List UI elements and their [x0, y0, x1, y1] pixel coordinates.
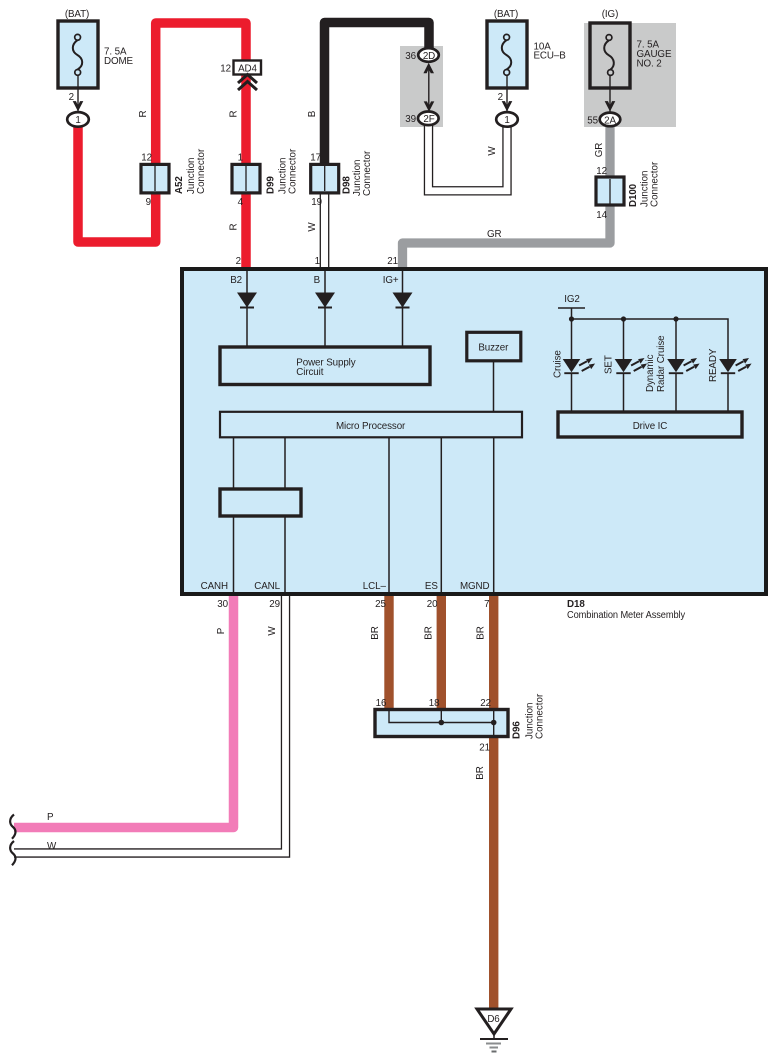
wire brown BR from ES pin 20 to D96	[437, 596, 446, 710]
svg-text:21: 21	[387, 256, 398, 267]
svg-text:LCL–: LCL–	[363, 581, 387, 592]
junction connector D99	[232, 164, 260, 193]
svg-text:D18: D18	[567, 599, 585, 610]
label D99 junction connector	[266, 148, 299, 194]
fuse 7.5A GAUGE NO.2	[590, 23, 630, 88]
micro processor box	[220, 412, 522, 438]
svg-text:NO. 2: NO. 2	[637, 59, 662, 70]
LED dynamic radar cruise	[667, 319, 699, 412]
svg-text:MGND: MGND	[460, 581, 490, 592]
svg-text:30: 30	[217, 599, 228, 610]
svg-text:12: 12	[220, 64, 231, 75]
wire brown BR from D96 pin 21 to ground D6	[489, 736, 498, 1009]
svg-text:D99: D99	[266, 176, 277, 194]
wire MGND microprocessor to edge	[493, 437, 495, 592]
svg-text:Buzzer: Buzzer	[478, 342, 509, 353]
svg-text:CANL: CANL	[254, 581, 280, 592]
svg-text:BR: BR	[475, 766, 486, 779]
svg-text:2: 2	[69, 92, 74, 103]
diode B2	[237, 292, 257, 347]
svg-text:12: 12	[141, 153, 152, 164]
gray shade behind IG fuse	[584, 23, 676, 127]
svg-text:2: 2	[498, 92, 503, 103]
squiggle P wire end	[10, 815, 15, 839]
svg-text:17: 17	[310, 153, 321, 164]
svg-text:29: 29	[269, 599, 280, 610]
junction connector D98	[311, 164, 339, 193]
connector circle 1 dome	[67, 112, 89, 127]
label D100 junction connector	[628, 161, 661, 207]
svg-text:BR: BR	[370, 626, 381, 639]
svg-text:Connector: Connector	[650, 161, 661, 207]
wire red DOME fuse to A52 to AD4 to D99 to meter B2	[78, 23, 246, 267]
svg-text:CANH: CANH	[201, 581, 228, 592]
junction connector A52	[141, 164, 169, 193]
svg-text:D98: D98	[342, 176, 353, 194]
svg-text:20: 20	[427, 599, 438, 610]
svg-text:DOME: DOME	[104, 56, 134, 67]
diode IG+	[393, 292, 413, 347]
svg-text:36: 36	[405, 51, 416, 62]
wire white W from 2F to ECU-B fuse pin 1	[429, 124, 508, 191]
fuse 7.5A DOME	[58, 21, 98, 88]
label D96 junction connector	[512, 693, 546, 739]
IG2 tick line	[558, 307, 585, 309]
svg-text:ECU–B: ECU–B	[534, 51, 567, 62]
gray shade behind 2D/2F connector	[400, 46, 443, 127]
svg-text:Connector: Connector	[535, 693, 546, 739]
svg-text:Drive IC: Drive IC	[633, 421, 668, 432]
svg-text:(BAT): (BAT)	[494, 9, 518, 20]
pin separator IG+	[402, 271, 404, 292]
svg-text:1: 1	[75, 115, 80, 126]
buzzer box	[467, 332, 521, 361]
svg-text:2A: 2A	[604, 116, 616, 127]
svg-text:D96: D96	[512, 721, 523, 739]
svg-text:Combination Meter Assembly: Combination Meter Assembly	[567, 610, 685, 621]
svg-text:Micro Processor: Micro Processor	[336, 421, 406, 432]
fuse 10A ECU-B	[487, 21, 527, 88]
junction dot 3	[673, 316, 678, 321]
LED ready	[719, 358, 751, 412]
wire CANL microprocessor to edge	[284, 437, 286, 592]
LED set	[615, 319, 647, 412]
svg-text:GR: GR	[487, 229, 502, 240]
svg-text:14: 14	[596, 210, 607, 221]
svg-text:ES: ES	[425, 581, 438, 592]
small unlabeled box	[220, 489, 301, 516]
svg-text:2D: 2D	[423, 51, 435, 62]
svg-text:Connector: Connector	[288, 148, 299, 194]
svg-text:Cruise: Cruise	[553, 350, 564, 378]
svg-text:A52: A52	[174, 176, 185, 194]
svg-text:2: 2	[236, 256, 241, 267]
label D18 combination meter assembly	[567, 599, 685, 621]
wire white W from CANL pin 29	[14, 596, 286, 853]
svg-text:B2: B2	[230, 275, 242, 286]
label A52 junction connector	[174, 148, 207, 194]
wire pink P from CANH pin 30	[14, 596, 234, 828]
svg-text:BR: BR	[423, 626, 434, 639]
svg-text:SET: SET	[604, 355, 615, 374]
wire LCL- microprocessor to edge	[388, 437, 390, 592]
svg-text:(IG): (IG)	[602, 9, 618, 20]
svg-text:55: 55	[587, 116, 598, 127]
svg-text:21: 21	[479, 743, 490, 754]
svg-text:READY: READY	[708, 348, 719, 382]
svg-text:1: 1	[238, 153, 243, 164]
svg-text:19: 19	[311, 197, 322, 208]
connector oval 2A	[600, 113, 621, 127]
IG2 feed line	[571, 308, 573, 319]
svg-text:P: P	[47, 812, 54, 823]
svg-text:25: 25	[375, 599, 386, 610]
svg-text:1: 1	[315, 256, 320, 267]
pin 2 stub and arrow ecu-b	[502, 76, 513, 113]
svg-text:BR: BR	[476, 626, 487, 639]
svg-text:R: R	[229, 223, 240, 230]
svg-text:P: P	[216, 627, 227, 634]
svg-text:Connector: Connector	[362, 150, 373, 196]
svg-text:7: 7	[484, 599, 489, 610]
svg-text:W: W	[267, 626, 278, 636]
svg-text:2F: 2F	[423, 114, 434, 125]
svg-text:GR: GR	[594, 143, 605, 158]
junction connector D100	[596, 177, 624, 205]
drive IC box	[558, 412, 742, 437]
svg-text:IG+: IG+	[383, 275, 399, 286]
svg-text:W: W	[307, 222, 318, 232]
svg-text:Circuit: Circuit	[296, 367, 323, 378]
LED cruise	[563, 319, 595, 412]
svg-text:W: W	[487, 146, 498, 156]
svg-text:Connector: Connector	[196, 148, 207, 194]
wire gray GR from IG fuse via D100 to meter IG+	[403, 125, 611, 267]
svg-text:W: W	[47, 841, 57, 852]
wire CANH microprocessor to edge	[233, 437, 235, 592]
svg-text:9: 9	[146, 197, 151, 208]
svg-text:39: 39	[405, 114, 416, 125]
svg-text:IG2: IG2	[564, 294, 580, 305]
wire buzzer to microprocessor	[493, 361, 495, 412]
svg-text:Radar Cruise: Radar Cruise	[656, 335, 667, 392]
junction dot 1	[569, 316, 574, 321]
svg-text:12: 12	[596, 166, 607, 177]
ground D6	[477, 1009, 511, 1052]
svg-text:16: 16	[376, 698, 387, 709]
connector circle 1 ecu-b	[496, 112, 518, 127]
svg-text:(BAT): (BAT)	[65, 9, 89, 20]
svg-text:18: 18	[429, 698, 440, 709]
svg-text:B: B	[314, 275, 321, 286]
pin separator B	[324, 271, 326, 292]
diode B	[315, 292, 335, 347]
wire brown BR from LCL- pin 25 to D96	[384, 596, 393, 710]
label Dynamic Radar Cruise	[645, 335, 667, 392]
svg-text:R: R	[229, 110, 240, 117]
wire white W from D98 to meter pin B	[320, 190, 328, 268]
svg-text:1: 1	[504, 115, 509, 126]
squiggle W wire end	[10, 841, 15, 865]
junction dot 2	[621, 316, 626, 321]
pin separator B2	[246, 271, 248, 292]
svg-text:22: 22	[480, 698, 491, 709]
power supply circuit box	[220, 347, 430, 385]
svg-text:R: R	[138, 110, 149, 117]
wire brown BR from MGND pin 7 to D96	[489, 596, 498, 710]
svg-text:D100: D100	[628, 183, 639, 207]
svg-text:B: B	[307, 110, 318, 117]
connector AD4	[234, 61, 262, 75]
combination meter assembly box	[182, 269, 766, 594]
pin 2 stub and arrow dome fuse	[73, 76, 84, 113]
connector 2D/2F assembly	[418, 48, 439, 125]
wire ES microprocessor to edge	[440, 437, 442, 592]
wire black B from top to D98	[325, 23, 430, 179]
stub and arrow IG fuse	[605, 76, 616, 113]
label D98 junction connector	[342, 150, 374, 196]
junction connector D96	[375, 710, 508, 737]
svg-text:Dynamic: Dynamic	[645, 354, 656, 392]
svg-text:D6: D6	[487, 1014, 500, 1025]
chevron double up below AD4	[238, 75, 257, 91]
LED bus line	[572, 319, 729, 359]
svg-text:4: 4	[238, 197, 244, 208]
